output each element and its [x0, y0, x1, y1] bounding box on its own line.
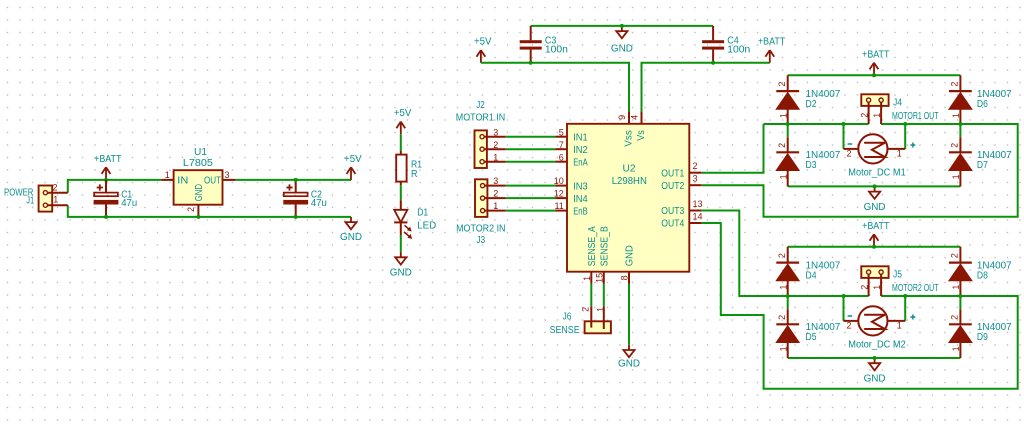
wire: [400, 134, 402, 151]
svg-text:2: 2: [186, 207, 196, 212]
svg-text:2: 2: [777, 253, 787, 258]
node +5V junction C2: [294, 178, 298, 182]
diode D4 1N4007: [776, 247, 841, 296]
svg-text:5: 5: [559, 127, 564, 137]
svg-text:10: 10: [554, 176, 564, 186]
svg-text:3: 3: [493, 127, 498, 137]
svg-text:MOTOR1 IN: MOTOR1 IN: [456, 113, 505, 124]
svg-text:14: 14: [693, 211, 703, 221]
svg-text:MOTOR2 IN: MOTOR2 IN: [456, 223, 505, 234]
svg-text:J6: J6: [563, 312, 572, 323]
svg-text:J5: J5: [893, 270, 902, 281]
wire: [506, 210, 556, 212]
svg-text:4: 4: [630, 115, 640, 120]
node diode junction left: [786, 294, 790, 298]
svg-text:2: 2: [581, 307, 591, 312]
node +BATT junction: [104, 178, 108, 182]
svg-text:Motor_DC M2: Motor_DC M2: [848, 340, 906, 351]
op-amp U2 (L298HN driver): [554, 111, 703, 284]
connector J5: [860, 266, 939, 296]
svg-text:D1: D1: [417, 207, 428, 218]
svg-text:D2: D2: [806, 99, 817, 110]
wire: [959, 296, 961, 309]
svg-text:Vss: Vss: [623, 130, 634, 147]
svg-text:47u: 47u: [311, 198, 327, 209]
svg-text:+5V: +5V: [474, 37, 492, 48]
svg-text:GND: GND: [625, 245, 636, 266]
power symbol +BATT: [94, 154, 121, 180]
svg-text:2: 2: [950, 253, 960, 258]
svg-text:GND: GND: [194, 184, 205, 202]
wire: [787, 124, 789, 137]
svg-text:2: 2: [860, 285, 870, 290]
wire: [881, 295, 960, 297]
wire: [506, 197, 556, 199]
svg-text:3: 3: [493, 176, 498, 186]
svg-text:1: 1: [493, 201, 498, 211]
node +5V junction C3: [529, 61, 533, 65]
svg-text:SENSE: SENSE: [550, 325, 580, 336]
node GND junction top: [620, 24, 624, 28]
svg-text:1: 1: [778, 285, 788, 290]
wire: [702, 124, 764, 173]
svg-text:D4: D4: [806, 270, 817, 281]
node motor plus junction: [903, 122, 907, 126]
svg-text:OUT1: OUT1: [661, 168, 684, 179]
wire: [68, 205, 351, 217]
svg-text:1: 1: [951, 113, 961, 118]
svg-text:1: 1: [897, 148, 902, 158]
connector J2: [456, 100, 506, 168]
motor M2 (Motor_DC): [844, 306, 916, 350]
wire: [788, 185, 961, 187]
svg-text:J1: J1: [26, 195, 34, 206]
svg-text:L298HN: L298HN: [612, 176, 647, 187]
svg-text:IN2: IN2: [573, 145, 588, 156]
connector J3: [456, 176, 506, 246]
svg-text:MOTOR1 OUT: MOTOR1 OUT: [892, 111, 939, 122]
connector J4: [860, 94, 939, 124]
svg-text:GND: GND: [390, 267, 412, 278]
svg-text:L7805: L7805: [183, 158, 213, 169]
node +BATT junction: [872, 73, 876, 77]
svg-text:EnA: EnA: [573, 158, 588, 169]
svg-text:2: 2: [777, 315, 787, 320]
svg-text:3: 3: [224, 170, 229, 180]
svg-text:OUT4: OUT4: [661, 219, 684, 230]
wire: [702, 211, 869, 297]
svg-text:1: 1: [778, 113, 788, 118]
svg-text:2: 2: [493, 189, 498, 199]
power symbol +BATT top: [758, 37, 785, 63]
svg-text:2: 2: [777, 82, 787, 87]
wire: [959, 124, 961, 137]
svg-text:J3: J3: [477, 235, 486, 246]
svg-text:+BATT: +BATT: [94, 154, 121, 165]
svg-text:13: 13: [693, 199, 703, 209]
svg-text:1: 1: [493, 152, 498, 162]
node diode junction right: [958, 294, 962, 298]
ground GND left: [340, 217, 362, 243]
power symbol +5V: [344, 154, 362, 180]
svg-text:GND: GND: [340, 232, 362, 243]
power symbol +5V top: [474, 37, 492, 63]
svg-text:9: 9: [617, 115, 627, 120]
wire: [68, 180, 161, 193]
svg-text:1: 1: [872, 285, 882, 290]
wire: [400, 185, 402, 200]
svg-text:2: 2: [52, 182, 57, 192]
svg-text:IN1: IN1: [573, 133, 588, 144]
wire: [764, 295, 869, 297]
svg-text:2: 2: [693, 161, 698, 171]
capacitor C2: [283, 180, 327, 217]
svg-text:100n: 100n: [545, 44, 568, 55]
svg-text:2: 2: [846, 148, 851, 158]
svg-text:1: 1: [897, 320, 902, 330]
svg-text:GND: GND: [864, 202, 886, 213]
diode D8 1N4007: [949, 247, 1012, 296]
svg-text:1: 1: [53, 195, 58, 205]
node GND junction: [873, 356, 877, 360]
svg-text:2: 2: [846, 320, 851, 330]
wire: [603, 284, 605, 306]
wire: [764, 123, 869, 125]
node motor plus junction: [903, 294, 907, 298]
svg-text:1: 1: [951, 346, 961, 351]
wire: [787, 296, 789, 309]
svg-text:J2: J2: [476, 100, 485, 111]
node +BATT junction C4: [711, 61, 715, 65]
svg-text:MOTOR2 OUT: MOTOR2 OUT: [892, 283, 939, 294]
capacitor C4: [702, 26, 750, 63]
svg-text:8: 8: [620, 275, 630, 280]
svg-text:D7: D7: [977, 160, 988, 171]
svg-text:GND: GND: [864, 374, 886, 385]
svg-text:U2: U2: [623, 163, 636, 174]
diode D6 1N4007: [949, 75, 1012, 124]
svg-text:D8: D8: [977, 270, 988, 281]
svg-text:IN: IN: [177, 175, 188, 186]
node diode junction right: [958, 122, 962, 126]
svg-text:1: 1: [778, 174, 788, 179]
wire: [843, 296, 845, 321]
LED D1: [394, 200, 436, 239]
resistor R1: [396, 151, 422, 185]
svg-text:2: 2: [860, 113, 870, 118]
svg-text:6: 6: [559, 152, 564, 162]
svg-text:+BATT: +BATT: [758, 37, 785, 48]
diode D3 1N4007: [776, 137, 841, 186]
svg-text:1: 1: [951, 174, 961, 179]
node GND junction C1: [104, 215, 108, 219]
svg-text:1: 1: [778, 346, 788, 351]
svg-text:15: 15: [595, 273, 605, 283]
svg-text:+BATT: +BATT: [862, 49, 889, 60]
svg-text:2: 2: [777, 143, 787, 148]
node GND junction C2: [294, 215, 298, 219]
svg-text:100n: 100n: [727, 44, 750, 55]
wire: [788, 246, 961, 248]
svg-text:OUT3: OUT3: [661, 206, 684, 217]
wire: [642, 63, 770, 112]
svg-text:D6: D6: [977, 99, 988, 110]
ground GND U2 pin8: [618, 345, 640, 370]
power symbol +5V R1: [394, 108, 412, 134]
svg-text:GND: GND: [611, 44, 633, 55]
wire: [506, 136, 556, 138]
svg-text:OUT: OUT: [204, 175, 221, 186]
svg-text:3: 3: [693, 174, 698, 184]
wire: [843, 124, 845, 149]
svg-text:7: 7: [559, 140, 564, 150]
node diode junction left: [786, 122, 790, 126]
svg-text:IN3: IN3: [573, 181, 588, 192]
wire: [506, 161, 556, 163]
svg-text:2: 2: [950, 82, 960, 87]
wire: [702, 124, 1018, 217]
svg-text:OUT2: OUT2: [661, 181, 684, 192]
wire: [702, 223, 1018, 389]
wire: [904, 296, 906, 321]
node motor minus junction: [842, 122, 846, 126]
wire: [628, 284, 630, 345]
svg-text:11: 11: [554, 201, 563, 211]
wire: [788, 74, 961, 76]
diode D2 1N4007: [776, 75, 841, 124]
node +BATT junction: [872, 245, 876, 249]
connector J1: [4, 182, 68, 211]
wire: [400, 235, 402, 252]
svg-text:J4: J4: [893, 98, 902, 109]
svg-text:SENSE_B: SENSE_B: [599, 226, 610, 266]
svg-text:EnB: EnB: [573, 206, 588, 217]
capacitor C1: [94, 180, 138, 217]
diode D7 1N4007: [949, 137, 1012, 186]
node GND junction: [873, 184, 877, 188]
power symbol +BATT M2: [862, 221, 889, 247]
svg-text:2: 2: [950, 143, 960, 148]
svg-text:1: 1: [951, 285, 961, 290]
node motor minus junction: [842, 294, 846, 298]
svg-text:Vs: Vs: [636, 130, 647, 141]
svg-text:+5V: +5V: [344, 154, 362, 165]
svg-text:1: 1: [872, 113, 882, 118]
svg-text:GND: GND: [618, 358, 640, 369]
svg-text:D9: D9: [977, 332, 988, 343]
svg-text:1: 1: [165, 170, 170, 180]
wire: [481, 63, 629, 112]
connector J6: [550, 306, 611, 336]
capacitor C3: [520, 26, 568, 63]
wire: [506, 185, 556, 187]
wire: [531, 25, 713, 27]
ground GND M1: [864, 186, 886, 213]
svg-text:+5V: +5V: [394, 108, 412, 119]
wire: [236, 179, 351, 181]
motor M1 (Motor_DC): [844, 134, 916, 178]
ground GND D1: [390, 252, 412, 278]
svg-text:D5: D5: [806, 332, 817, 343]
svg-text:12: 12: [554, 189, 564, 199]
wire: [506, 148, 556, 150]
svg-text:47u: 47u: [121, 198, 137, 209]
node GND junction U1: [196, 215, 200, 219]
svg-text:1: 1: [582, 276, 592, 281]
svg-text:IN4: IN4: [573, 194, 588, 205]
svg-text:1: 1: [595, 307, 605, 312]
diode D9 1N4007: [949, 309, 1012, 358]
diode D5 1N4007: [776, 309, 841, 358]
svg-text:2: 2: [493, 140, 498, 150]
wire: [788, 357, 961, 359]
power symbol +BATT M1: [862, 49, 889, 75]
wire: [881, 123, 960, 125]
svg-text:D3: D3: [806, 160, 817, 171]
svg-text:U1: U1: [194, 147, 207, 158]
svg-text:LED: LED: [417, 221, 436, 232]
wire: [904, 124, 906, 149]
svg-text:R: R: [411, 169, 418, 180]
regulator U1: [161, 147, 236, 215]
svg-text:Motor_DC M1: Motor_DC M1: [848, 168, 906, 179]
svg-text:+BATT: +BATT: [862, 221, 889, 232]
ground GND top: [611, 26, 633, 55]
svg-text:SENSE_A: SENSE_A: [587, 226, 598, 266]
wire: [590, 284, 592, 306]
ground GND M2: [864, 358, 886, 385]
svg-text:2: 2: [950, 315, 960, 320]
